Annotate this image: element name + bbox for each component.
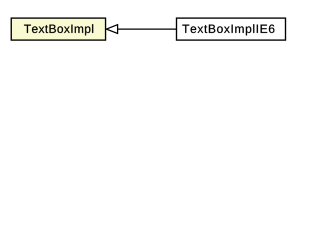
label TextBoxImplIE6	[182, 24, 274, 35]
label TextBoxImpl	[24, 24, 93, 35]
class box TextBoxImpl	[11, 18, 105, 40]
inheritance arrow hollow triangle	[106, 25, 117, 34]
class box TextBoxImplIE6	[177, 18, 286, 40]
wire connector line	[118, 28, 177, 30]
